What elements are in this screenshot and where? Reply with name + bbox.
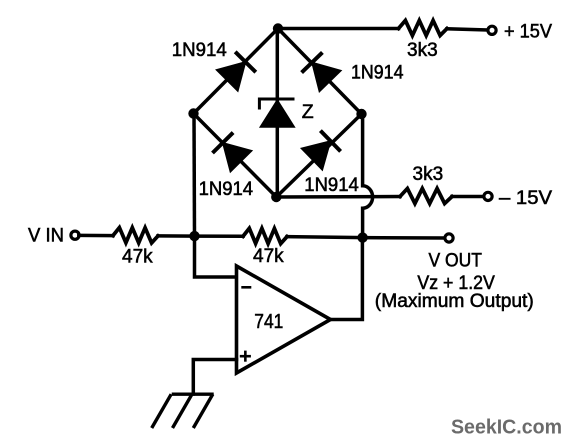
ground	[152, 394, 214, 428]
diode D4 1N914 bottom-right	[301, 131, 340, 170]
wire diagonal T to R	[278, 29, 362, 115]
svg-text:1N914: 1N914	[199, 179, 254, 200]
svg-text:– 15V: – 15V	[499, 188, 552, 209]
node J1 junction dot	[189, 231, 199, 241]
resistor R3 3k3 top	[399, 21, 448, 36]
svg-text:47k: 47k	[253, 246, 284, 267]
op-amp U1 741	[237, 266, 331, 373]
wire J1 to R2	[195, 234, 244, 238]
svg-text:V IN: V IN	[28, 226, 64, 247]
wire diagonal L to T	[194, 29, 279, 114]
wire zener branch vertical T to B	[276, 29, 280, 198]
wire L node down to J1	[192, 114, 196, 237]
diode D3 1N914 bottom-left	[213, 133, 252, 172]
svg-text:1N914: 1N914	[351, 63, 404, 84]
pin label plus	[240, 351, 251, 362]
resistor R4 3k3 bottom	[400, 189, 452, 204]
wire diagonal B to R	[276, 114, 361, 197]
wire R3 to +15V terminal	[447, 29, 487, 30]
wire J1 to op-amp inverting input	[195, 236, 237, 277]
node J2 junction dot	[357, 232, 367, 242]
terminal V IN	[71, 231, 79, 239]
wire top node to +15V resistor	[278, 27, 399, 31]
wire R1 to J1	[158, 234, 195, 238]
wire V IN to R1	[79, 234, 113, 238]
svg-text:1N914: 1N914	[304, 175, 359, 196]
svg-text:V OUT: V OUT	[429, 251, 483, 272]
svg-text:3k3: 3k3	[413, 164, 444, 185]
wire right node down with hop over -15V line	[363, 114, 373, 238]
node B junction dot	[271, 192, 281, 202]
resistor R2 47k feedback	[243, 228, 287, 243]
terminal -15V	[484, 192, 492, 200]
terminal V OUT	[445, 234, 453, 242]
wire diagonal B to L	[194, 114, 277, 198]
wire R2 to J2	[287, 237, 363, 238]
svg-text:741: 741	[254, 311, 283, 333]
svg-text:+ 15V: + 15V	[504, 22, 552, 43]
svg-text:(Maximum Output): (Maximum Output)	[375, 291, 534, 312]
resistor R1 47k input	[113, 228, 158, 243]
zener diode Z	[258, 98, 295, 128]
svg-text:SeekIC.com: SeekIC.com	[451, 417, 562, 439]
node R junction dot	[356, 109, 366, 119]
node L junction dot	[188, 108, 198, 118]
wire J2 to V OUT terminal	[363, 236, 445, 240]
wire non-inverting input to ground	[193, 360, 236, 395]
diode D1 1N914 top-left	[217, 52, 256, 91]
wire R4 to -15V terminal	[452, 195, 483, 199]
pin label minus	[241, 286, 251, 289]
svg-text:3k3: 3k3	[407, 40, 438, 61]
svg-text:1N914: 1N914	[172, 40, 227, 61]
diode D2 1N914 top-right	[302, 52, 341, 91]
svg-text:47k: 47k	[122, 246, 153, 267]
terminal +15V	[488, 26, 496, 34]
wire op-amp output up to J2	[331, 238, 363, 320]
node T junction dot	[273, 23, 283, 33]
wire bottom node to -15V resistor	[276, 195, 400, 199]
svg-text:Z: Z	[302, 101, 314, 123]
